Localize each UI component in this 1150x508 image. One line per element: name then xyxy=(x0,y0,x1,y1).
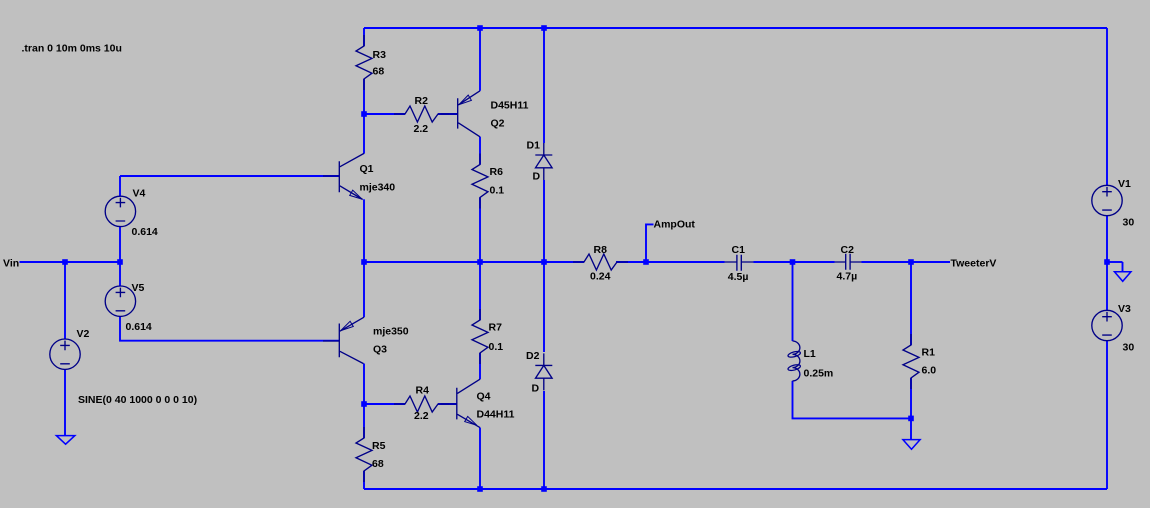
svg-text:30: 30 xyxy=(1123,216,1135,228)
svg-text:V3: V3 xyxy=(1118,303,1131,315)
svg-text:AmpOut: AmpOut xyxy=(654,219,696,231)
svg-text:0.24: 0.24 xyxy=(590,271,611,283)
svg-text:30: 30 xyxy=(1123,341,1135,353)
svg-text:4.5µ: 4.5µ xyxy=(728,271,749,283)
svg-text:Q2: Q2 xyxy=(491,117,505,129)
svg-text:0.25m: 0.25m xyxy=(804,368,834,380)
svg-text:D45H11: D45H11 xyxy=(491,99,529,111)
svg-text:0.1: 0.1 xyxy=(490,185,505,197)
svg-text:6.0: 6.0 xyxy=(922,365,937,377)
svg-text:D: D xyxy=(532,382,540,394)
svg-text:.tran 0 10m 0ms 10u: .tran 0 10m 0ms 10u xyxy=(22,43,122,55)
svg-text:R4: R4 xyxy=(416,385,430,397)
svg-text:R8: R8 xyxy=(594,244,608,256)
svg-text:4.7µ: 4.7µ xyxy=(837,270,858,282)
svg-text:2.2: 2.2 xyxy=(414,123,429,135)
svg-text:D44H11: D44H11 xyxy=(477,409,515,421)
svg-text:C1: C1 xyxy=(732,244,746,256)
svg-text:L1: L1 xyxy=(804,348,816,360)
svg-text:V4: V4 xyxy=(133,187,146,199)
svg-text:R7: R7 xyxy=(489,322,503,334)
svg-text:Q4: Q4 xyxy=(477,391,491,403)
svg-text:D: D xyxy=(533,171,541,183)
svg-text:R6: R6 xyxy=(490,166,504,178)
svg-text:D2: D2 xyxy=(526,350,540,362)
svg-text:2.2: 2.2 xyxy=(414,410,429,422)
svg-text:R3: R3 xyxy=(373,49,387,61)
svg-text:V5: V5 xyxy=(132,282,145,294)
svg-text:TweeterV: TweeterV xyxy=(951,257,997,269)
svg-text:C2: C2 xyxy=(841,244,855,256)
svg-text:V2: V2 xyxy=(77,328,90,340)
svg-text:0.614: 0.614 xyxy=(132,226,158,238)
svg-text:R5: R5 xyxy=(372,440,386,452)
svg-text:mje340: mje340 xyxy=(360,182,396,194)
svg-text:R2: R2 xyxy=(415,95,429,107)
svg-text:mje350: mje350 xyxy=(373,326,409,338)
svg-text:0.614: 0.614 xyxy=(126,321,152,333)
svg-text:Q1: Q1 xyxy=(360,163,374,175)
svg-text:SINE(0 40 1000 0 0 0 10): SINE(0 40 1000 0 0 0 10) xyxy=(78,394,197,406)
svg-text:68: 68 xyxy=(372,458,384,470)
svg-text:0.1: 0.1 xyxy=(489,341,504,353)
svg-text:R1: R1 xyxy=(922,346,936,358)
svg-text:68: 68 xyxy=(373,66,385,78)
svg-text:Vin: Vin xyxy=(3,258,19,270)
svg-text:Q3: Q3 xyxy=(373,344,387,356)
svg-text:D1: D1 xyxy=(527,140,541,152)
svg-text:V1: V1 xyxy=(1118,178,1131,190)
